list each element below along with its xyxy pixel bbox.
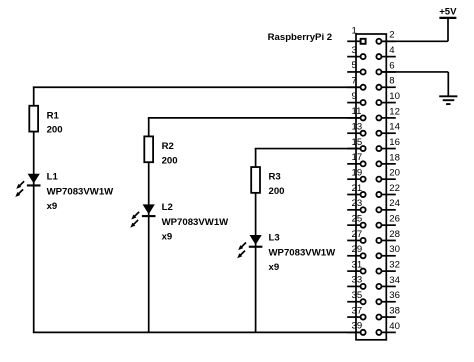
svg-text:L1: L1 [47,171,59,182]
svg-text:35: 35 [352,290,363,301]
svg-text:18: 18 [389,152,400,163]
wire: pin 2 to +5V (horizontal) [381,40,448,42]
pin 23 [347,198,365,212]
pin 33 [347,275,365,289]
svg-text:16: 16 [389,137,400,148]
svg-text:25: 25 [352,213,363,224]
svg-text:11: 11 [352,106,362,117]
wire: pin 6 to ground (horizontal) [381,71,448,73]
svg-text:38: 38 [389,305,400,316]
wire: ground vertical drop [447,72,449,96]
svg-text:10: 10 [389,91,400,102]
svg-text:13: 13 [352,122,363,133]
pin 3 [347,45,365,59]
svg-text:L2: L2 [162,202,173,213]
pin 10 [376,91,400,105]
pin 30 [376,244,400,258]
svg-text:x9: x9 [269,262,280,273]
svg-text:5: 5 [352,60,357,71]
pin 21 [347,183,365,197]
svg-text:39: 39 [352,321,363,332]
pin 29 [347,244,365,258]
svg-text:x9: x9 [162,232,173,243]
svg-text:33: 33 [352,275,363,286]
pin 11 [347,106,365,120]
svg-text:30: 30 [389,244,400,255]
svg-text:21: 21 [352,183,363,194]
pin 26 [376,214,400,228]
svg-text:2: 2 [389,30,394,41]
resistor R3 [251,167,260,193]
svg-text:200: 200 [162,155,178,166]
svg-text:4: 4 [389,45,395,56]
svg-text:31: 31 [352,259,363,270]
svg-text:9: 9 [352,91,357,102]
pin 28 [376,229,400,243]
svg-text:L3: L3 [269,233,280,244]
svg-text:WP7083VW1W: WP7083VW1W [269,248,337,259]
svg-text:x9: x9 [47,201,58,212]
svg-text:22: 22 [389,183,400,194]
svg-text:R2: R2 [162,141,174,152]
pin 22 [376,183,400,197]
pin 4 [376,45,395,59]
pin 36 [376,290,400,304]
svg-text:+5V: +5V [439,6,457,17]
svg-text:40: 40 [389,321,400,332]
pin 16 [376,137,400,151]
pin 35 [347,290,365,304]
pin 24 [376,198,400,212]
svg-text:34: 34 [389,275,400,286]
pin 38 [376,305,400,319]
svg-text:12: 12 [389,106,400,117]
svg-text:37: 37 [352,305,363,316]
pin 2 [376,30,395,44]
svg-text:32: 32 [389,260,400,271]
svg-text:8: 8 [389,76,394,87]
pin 39 [347,321,365,335]
LED L2 [130,204,155,227]
wire: GPIO pin to R3 branch (horizontal) [255,148,361,150]
pin 37 [347,305,365,319]
pin 13 [347,122,365,136]
wire: R1/L1 branch vertical [33,87,35,332]
wire: GPIO pin to R2 branch (horizontal) [148,117,361,119]
pin 1 [347,26,365,44]
pin 9 [347,91,365,105]
svg-text:R1: R1 [47,110,60,121]
ground symbol [439,96,457,104]
svg-text:7: 7 [352,76,357,87]
svg-text:RaspberryPi 2: RaspberryPi 2 [268,32,333,43]
pin 17 [347,152,365,166]
pin 18 [376,152,400,166]
svg-text:15: 15 [352,137,363,148]
wire: GPIO pin to R1 branch (horizontal) [33,86,361,88]
svg-text:3: 3 [352,45,357,56]
resistor R2 [144,136,153,162]
pin 40 [376,321,400,335]
pin 14 [376,122,400,136]
pin 7 [347,76,365,90]
svg-text:17: 17 [352,152,363,163]
svg-text:14: 14 [389,122,400,133]
svg-text:200: 200 [269,186,285,197]
pin 8 [376,76,395,90]
svg-text:R3: R3 [269,172,281,183]
svg-text:WP7083VW1W: WP7083VW1W [162,217,230,228]
wire: ground bus from L1/L2/L3 cathodes to pin 39 [33,331,361,333]
connector J1 RaspberryPi 2 GPIO header [356,34,386,340]
wire: R3/L3 branch vertical [255,149,257,333]
svg-text:200: 200 [47,125,63,136]
pin 31 [347,259,365,273]
LED L3 [237,235,262,258]
pin 15 [347,137,365,151]
pin 32 [376,260,400,274]
svg-text:6: 6 [389,60,394,71]
resistor R1 [29,106,38,132]
pin 12 [376,106,400,120]
svg-text:20: 20 [389,168,400,179]
svg-text:26: 26 [389,214,400,225]
wire: R2/L2 branch vertical [148,118,150,332]
pin 25 [347,213,365,227]
svg-text:19: 19 [352,167,363,178]
pin 19 [347,167,365,181]
svg-text:29: 29 [352,244,363,255]
svg-text:24: 24 [389,198,400,209]
LED L1 [15,174,40,197]
svg-text:1: 1 [352,26,357,37]
wire: +5V vertical drop [447,18,449,41]
svg-text:28: 28 [389,229,400,240]
pin 20 [376,168,400,182]
svg-text:23: 23 [352,198,363,209]
svg-text:WP7083VW1W: WP7083VW1W [47,186,115,197]
pin 27 [347,229,365,243]
power +5V symbol [439,6,457,18]
svg-text:27: 27 [352,229,363,240]
pin 34 [376,275,400,289]
pin 6 [376,60,395,74]
svg-text:36: 36 [389,290,400,301]
pin 5 [347,60,365,74]
